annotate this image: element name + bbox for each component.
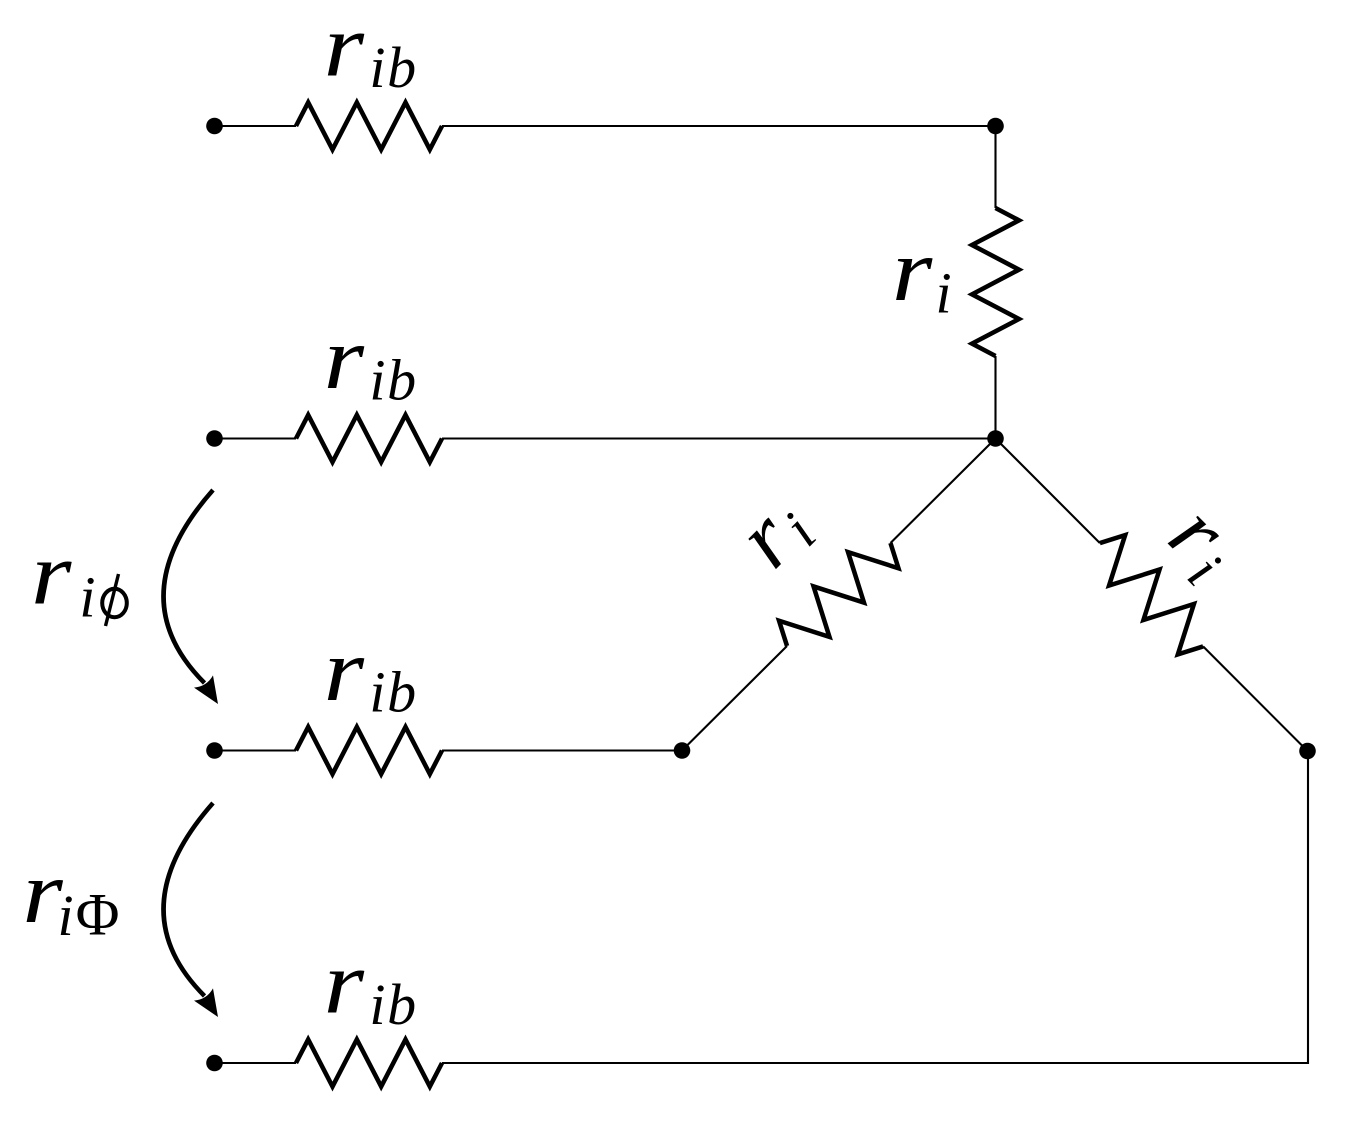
svg-text:b: b [387,348,416,413]
svg-text:i: i [58,883,74,948]
svg-text:i: i [369,35,385,100]
svg-text:b: b [387,972,416,1037]
svg-text:i: i [79,564,95,629]
svg-text:i: i [369,348,385,413]
svg-text:b: b [387,35,416,100]
svg-text:r: r [324,0,365,95]
svg-text:r: r [324,310,365,408]
svg-text:r: r [324,622,365,720]
svg-text:r: r [324,934,365,1032]
svg-text:r: r [892,222,933,320]
svg-text:i: i [369,972,385,1037]
svg-text:r: r [31,525,72,623]
svg-text:i: i [369,660,385,725]
svg-text:b: b [387,660,416,725]
svg-text:i: i [936,261,952,326]
svg-text:Φ: Φ [76,881,120,947]
